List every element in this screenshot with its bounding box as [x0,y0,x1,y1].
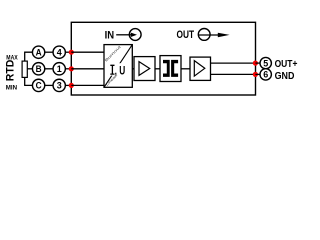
converter diagonal [104,45,132,88]
svg-text:B: B [36,64,42,74]
terminal B [32,63,44,75]
svg-text:6: 6 [263,70,268,80]
resistor RTD body [22,61,27,77]
wire C to 3 [45,84,54,86]
OUT port circle [198,29,210,41]
svg-text:5: 5 [263,58,268,68]
amplifier A1 triangle [139,62,150,76]
terminal A [32,46,44,58]
wire A to 4 [45,51,54,53]
terminal 4 [53,46,65,58]
svg-text:OUT+: OUT+ [275,58,298,70]
IN arrowhead [131,33,137,37]
wire OUT arrow shaft [198,34,220,36]
terminal 6 [260,69,271,80]
input converter block U1 [104,45,132,88]
svg-text:OUT: OUT [177,29,195,41]
wire 1 to box [65,68,71,70]
svg-text:RTD: RTD [5,60,17,82]
svg-text:1: 1 [57,64,62,74]
svg-text:MIN: MIN [6,85,18,92]
svg-text:GND: GND [275,70,295,82]
wire IN arrow shaft [116,34,131,36]
svg-text:4: 4 [57,48,62,58]
wire RTD bottom to node C [24,77,32,85]
svg-text:A: A [36,48,42,58]
module enclosure box [71,22,255,95]
transformer T1 right winding [171,60,178,77]
terminal 1 [53,63,65,75]
wire amp A1 to transformer [155,68,160,70]
wire B to 1 [45,68,54,70]
terminal 3 [53,79,65,91]
wire node 4 to converter [71,51,104,53]
amplifier A2 triangle [194,61,205,77]
amplifier A1 block [134,57,155,81]
converter label I [110,65,114,74]
junction dot node 5 [253,61,258,66]
wire transformer to amp A2 [181,68,190,70]
OUT arrowhead [218,33,230,38]
svg-text:3: 3 [57,81,62,91]
wire amp A2 to node 5 [211,62,256,64]
wire box to terminal 6 [255,73,260,75]
wire RTD top to node A [24,52,32,61]
IN port circle [129,29,141,41]
svg-text:IN: IN [105,29,115,41]
wire box to terminal 5 [255,62,260,64]
converter text backplate [109,63,126,75]
junction dot node 4 [69,50,74,55]
terminal C [32,79,44,91]
wire node 3 to converter [71,84,104,86]
junction dot node 6 [253,72,258,77]
wire RTD tap to node B [27,68,32,70]
wire converter to amp A1 [132,68,134,70]
wire amp A2 to node 6 [211,73,256,75]
wire 3 to box [65,84,71,86]
wire node 1 to converter [71,68,104,70]
wire 4 to box [65,51,71,53]
isolation transformer T1 block [160,56,181,82]
terminal 5 [260,57,271,68]
transformer T1 left winding [163,60,170,77]
svg-text:, U: , U [115,63,126,77]
junction dot node 1 [69,66,74,71]
svg-text:C: C [36,81,42,91]
junction dot node 3 [69,83,74,88]
amplifier A2 block [190,57,211,80]
